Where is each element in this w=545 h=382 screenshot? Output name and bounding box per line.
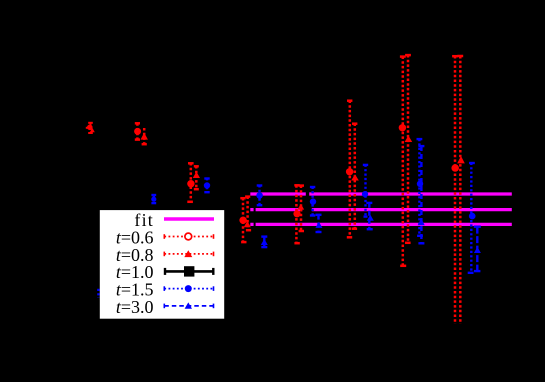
cluster D: circle t=1.5 (blue)	[256, 192, 263, 199]
cluster B: errorbar t=1.5 (blue)	[151, 195, 156, 204]
cluster C: circle t=0.6	[187, 180, 194, 187]
cluster B: circle t=1.5 (blue)	[151, 197, 156, 202]
cluster D: triangle t=3.0 (blue)	[261, 239, 268, 245]
cluster C: triangle t=0.8	[193, 172, 200, 178]
cluster H: circle t=0.6	[451, 164, 459, 172]
cluster D: errorbar t=3.0 (blue dashed)	[261, 236, 267, 247]
cluster G: errorbar t=0.6	[400, 57, 406, 267]
legend sample fit (magenta line)	[164, 217, 214, 220]
cluster B: errorbar t=0.8	[142, 128, 147, 144]
legend sample t=1.0 (black solid, square)	[165, 266, 213, 276]
cluster G: triangle t=0.8	[405, 136, 413, 143]
black square t=1.0 (invisible, cuts middle line at x=307)	[302, 194, 312, 214]
cluster F: circle t=1.5 (blue)	[362, 191, 368, 197]
cluster H: circle t=1.5 (blue)	[469, 213, 476, 220]
cluster E: errorbar t=0.6	[294, 185, 300, 243]
legend label t=0.8	[116, 245, 154, 265]
cluster G: errorbar t=1.5 (blue)	[417, 139, 423, 236]
legend box	[100, 210, 224, 319]
cluster F: circle t=0.6	[346, 168, 353, 175]
cluster A: triangle t=0.8	[90, 128, 95, 133]
cluster B: circle t=0.6	[134, 128, 141, 135]
cluster F: errorbar t=1.5 (blue)	[363, 165, 368, 217]
cluster C: errorbar t=0.6	[187, 163, 193, 202]
legend label t=1.5	[116, 280, 154, 300]
cluster A: circle t=0.6	[86, 125, 93, 131]
svg-text:t=3.0: t=3.0	[116, 297, 154, 317]
cluster C: errorbar t=0.8	[194, 166, 199, 190]
cluster F: triangle t=0.8	[351, 174, 359, 180]
cluster E: triangle t=0.8	[297, 204, 304, 210]
black errorbar cap t=1.0 (cuts top line near x=307.5)	[306, 191, 309, 197]
cluster F: errorbar t=3.0 (blue dashed)	[366, 203, 372, 230]
cluster H: errorbar t=1.5 (blue)	[468, 163, 475, 273]
legend sample t=3.0 (blue dashed, triangle)	[164, 302, 213, 308]
cluster D: errorbar t=0.6	[240, 198, 246, 242]
cluster F: errorbar t=0.8	[352, 124, 358, 230]
cluster G: circle t=0.6	[399, 124, 406, 131]
fit line 1 (top magenta)	[250, 192, 512, 195]
cluster H: triangle t=3.0 (blue)	[474, 247, 481, 253]
cluster G: errorbar t=0.8	[405, 55, 411, 243]
legend label t=3.0	[116, 297, 154, 317]
cluster E: errorbar t=0.8	[299, 186, 304, 232]
cluster H: errorbar t=0.8	[457, 56, 463, 324]
legend label t=0.6	[116, 227, 154, 247]
cluster E: errorbar t=3.0 (blue dashed)	[316, 215, 322, 233]
fit line 2 (middle magenta)	[250, 208, 512, 211]
fit line 3 (bottom magenta)	[250, 223, 512, 226]
cluster E: errorbar t=1.5 (blue)	[310, 187, 315, 216]
cluster E: triangle t=3.0 (blue)	[315, 222, 322, 228]
legend label t=1.0	[116, 262, 154, 282]
cluster D: errorbar t=1.5 (blue)	[257, 185, 263, 205]
cluster D: errorbar t=0.8	[245, 197, 251, 231]
cluster F: triangle t=3.0 (blue)	[367, 215, 374, 221]
cluster A: errorbar t=0.6	[88, 123, 93, 134]
legend label fit	[134, 210, 154, 230]
cluster C: circle t=1.5 (blue)	[204, 182, 210, 188]
cluster D: triangle t=0.8	[244, 221, 251, 227]
legend sample t=0.6 (red dotted, open circle)	[164, 233, 213, 240]
cluster E: circle t=1.5 (blue)	[310, 198, 316, 204]
cluster H: errorbar t=3.0 (blue dashed)	[474, 227, 481, 272]
cluster C: errorbar t=1.5 (blue)	[204, 178, 209, 192]
cluster B: triangle t=0.8	[141, 133, 148, 140]
legend sample t=1.5 (blue dotted, circle)	[164, 285, 213, 292]
cluster G: triangle t=3.0 (blue)	[418, 218, 425, 225]
black errorbar t=1.0 (invisible, cuts middle+bottom lines at x=254.6)	[254, 203, 256, 230]
cluster G: errorbar t=3.0 (blue dashed)	[418, 146, 424, 244]
cluster B: errorbar t=0.6	[135, 123, 140, 140]
cluster F: errorbar t=0.6	[347, 101, 353, 238]
cluster D: circle t=0.6	[239, 217, 246, 224]
cluster E: circle t=0.6	[293, 210, 300, 217]
stray blue errorbar left of legend	[97, 289, 99, 298]
cluster H: errorbar t=0.6	[452, 56, 458, 324]
cluster H: triangle t=0.8	[457, 156, 465, 163]
legend sample t=0.8 (red dotted, triangle)	[164, 250, 213, 257]
cluster G: circle t=1.5 (blue)	[417, 181, 423, 187]
